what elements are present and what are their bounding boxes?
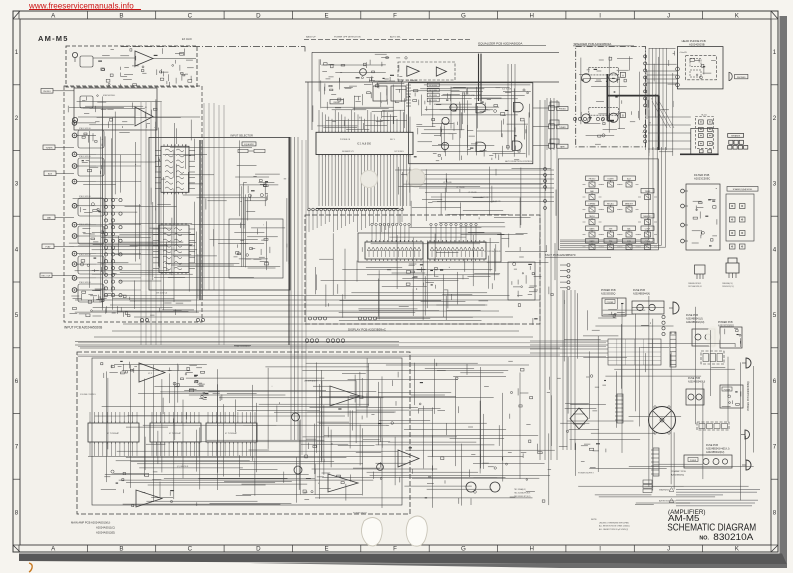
svg-text:TAPE1: TAPE1	[589, 215, 595, 218]
svg-text:REC OUT: REC OUT	[42, 276, 52, 278]
svg-text:6: 6	[15, 378, 19, 385]
svg-text:A2024B5042(K2): A2024B5042(K2)	[706, 451, 725, 454]
svg-text:EQUALIZER: EQUALIZER	[244, 143, 254, 146]
svg-text:COMP: COMP	[645, 229, 651, 231]
svg-text:STACK MODEL: STACK MODEL	[79, 281, 91, 284]
svg-text:MEMORY: MEMORY	[625, 204, 634, 206]
svg-text:ALL RESISTORS IN OHMS 1/4W(J): ALL RESISTORS IN OHMS 1/4W(J)	[599, 525, 630, 528]
svg-text:A2023B505Q: A2023B505Q	[671, 474, 684, 477]
svg-text:E: E	[325, 13, 329, 20]
svg-text:POWER PCB: POWER PCB	[718, 321, 733, 324]
svg-text:BASS: BASS	[590, 228, 596, 231]
svg-text:HEAD PHONE PCB: HEAD PHONE PCB	[682, 39, 706, 43]
svg-text:NR 16OHM: NR 16OHM	[429, 95, 438, 97]
svg-text:A2023S505Q: A2023S505Q	[601, 293, 615, 296]
svg-text:LP 12HNB: LP 12HNB	[456, 187, 465, 189]
svg-text:POWER: POWER	[690, 460, 697, 462]
svg-text:LP 12HNB: LP 12HNB	[443, 182, 452, 184]
svg-text:AUTO FUNCTION CONTROL: AUTO FUNCTION CONTROL	[505, 160, 533, 163]
svg-text:IC3 12A068: IC3 12A068	[406, 79, 418, 82]
svg-text:FUSE PCB: FUSE PCB	[706, 444, 718, 447]
svg-text:DAD: DAD	[47, 217, 52, 220]
svg-text:STACK MODEL: STACK MODEL	[79, 223, 91, 226]
svg-text:PHONO: PHONO	[559, 109, 566, 111]
svg-text:J: J	[667, 13, 670, 20]
svg-text:POWER PCB: POWER PCB	[601, 289, 616, 292]
svg-text:OUT KOBOL: OUT KOBOL	[394, 151, 404, 153]
svg-text:AUX: AUX	[48, 173, 53, 176]
svg-text:FUSE PCB: FUSE PCB	[686, 314, 698, 317]
svg-text:5W 1/2W (J): 5W 1/2W (J)	[156, 293, 167, 295]
svg-text:2SB608H NP/E,F1: 2SB608H NP/E,F1	[688, 283, 701, 285]
svg-text:A20240503B: A20240503B	[689, 42, 705, 46]
svg-text:7: 7	[15, 444, 19, 451]
svg-text:TUNER: TUNER	[559, 127, 566, 129]
svg-text:LP 12HNB: LP 12HNB	[480, 197, 489, 199]
svg-text:PORTA B OB: PORTA B OB	[340, 138, 351, 141]
svg-text:SPEAKER PCB A20240503A: SPEAKER PCB A20240503A	[574, 42, 612, 46]
svg-text:LP 12HNB: LP 12HNB	[468, 192, 477, 194]
svg-text:IC TC9164P: IC TC9164P	[169, 433, 182, 435]
svg-text:7: 7	[773, 444, 777, 451]
svg-text:POWER: POWER	[724, 389, 731, 391]
svg-text:+50mWL: +50mWL	[679, 52, 688, 54]
svg-text:INPUT SELECTOR: INPUT SELECTOR	[231, 134, 254, 138]
svg-text:PHONES: PHONES	[737, 77, 746, 79]
svg-text:F: F	[393, 546, 397, 553]
svg-text:830210A: 830210A	[713, 532, 754, 543]
svg-text:DEFEAT: DEFEAT	[589, 203, 597, 206]
svg-text:TIMER: TIMER	[645, 191, 651, 193]
svg-text:STACK MODEL: STACK MODEL	[79, 253, 91, 256]
svg-text:POWER? PCB: POWER? PCB	[671, 471, 686, 473]
svg-text:STACK MODEL: STACK MODEL	[79, 155, 91, 158]
svg-text:6: 6	[773, 378, 777, 385]
svg-text:WARNING:: WARNING:	[659, 489, 670, 492]
svg-text:4: 4	[15, 246, 19, 253]
svg-text:4: 4	[773, 246, 777, 253]
svg-text:POWER SUPPLY: POWER SUPPLY	[578, 473, 595, 475]
svg-text:A2023C509C: A2023C509C	[694, 177, 710, 181]
svg-text:A2024A5012(E): A2024A5012(E)	[96, 531, 115, 535]
svg-text:SPEAKER: SPEAKER	[731, 135, 741, 138]
svg-text:RESET: RESET	[334, 102, 341, 104]
svg-text:1: 1	[15, 49, 19, 56]
svg-text:TB1 20MA(E,F): TB1 20MA(E,F)	[514, 488, 526, 491]
svg-text:8: 8	[773, 509, 777, 516]
svg-text:5: 5	[15, 312, 19, 319]
svg-text:2: 2	[15, 115, 19, 122]
svg-text:PHONO: PHONO	[43, 91, 51, 93]
svg-text:H: H	[529, 546, 533, 553]
svg-text:MEMORY: MEMORY	[643, 216, 652, 218]
svg-text:AM-M5: AM-M5	[668, 513, 700, 523]
svg-text:C: C	[188, 546, 193, 553]
svg-text:TA-001: TA-001	[701, 114, 707, 117]
svg-text:E: E	[325, 546, 329, 553]
svg-text:B: B	[119, 13, 123, 20]
svg-text:POWER MUTE: POWER MUTE	[353, 513, 367, 515]
svg-text:IC 1 AL8 050: IC 1 AL8 050	[357, 143, 371, 146]
svg-text:TUNER: TUNER	[46, 148, 53, 150]
svg-text:A2024B5044(X): A2024B5044(X)	[633, 293, 650, 296]
svg-text:3: 3	[773, 181, 777, 188]
svg-text:BAL: BAL	[627, 228, 630, 231]
svg-text:TACT PCB A2023B5070: TACT PCB A2023B5070	[545, 253, 576, 257]
svg-text:IC TC9164P: IC TC9164P	[107, 433, 120, 435]
svg-text:C: C	[188, 13, 193, 20]
svg-text:TB2 20206A HF (E,F): TB2 20206A HF (E,F)	[514, 492, 531, 495]
svg-text:D: D	[256, 13, 261, 20]
svg-text:A2024B5043/-4(E,K,I): A2024B5043/-4(E,K,I)	[706, 448, 730, 451]
svg-text:KEY 0: KEY 0	[390, 139, 395, 141]
svg-text:A2024A5011(C): A2024A5011(C)	[96, 526, 115, 530]
svg-text:www.freeservicemanuals.info: www.freeservicemanuals.info	[28, 1, 134, 10]
svg-text:45B MODEL: 45B MODEL	[103, 95, 116, 97]
svg-text:5: 5	[773, 312, 777, 319]
svg-text:FUSE PCB: FUSE PCB	[688, 377, 700, 380]
svg-text:G: G	[461, 13, 466, 20]
svg-text:1: 1	[773, 49, 777, 56]
svg-text:AVERTISSEMENT:: AVERTISSEMENT:	[659, 500, 676, 503]
svg-text:INPUT PCB A2024A5020B: INPUT PCB A2024A5020B	[64, 326, 102, 330]
svg-text:NR 16OHM: NR 16OHM	[429, 85, 438, 87]
svg-text:PLAY: PLAY	[46, 246, 52, 249]
svg-text:POWER PCB A2023C505Q: POWER PCB A2023C505Q	[747, 381, 750, 411]
svg-text:B: B	[119, 546, 123, 553]
svg-text:POWER: POWER	[607, 302, 614, 304]
svg-text:FILTER PCB: FILTER PCB	[694, 173, 710, 177]
svg-text:J: J	[667, 546, 670, 553]
svg-text:EQUALIZER PCB A2024A5020A: EQUALIZER PCB A2024A5020A	[478, 42, 522, 46]
svg-text:I: I	[599, 546, 601, 553]
svg-text:STACK MODEL: STACK MODEL	[79, 195, 91, 198]
svg-text:PHONO: PHONO	[589, 179, 596, 181]
svg-text:TAPE: TAPE	[560, 145, 566, 148]
svg-text:D: D	[256, 546, 261, 553]
svg-text:RECALL: RECALL	[607, 203, 614, 206]
svg-text:I: I	[599, 13, 601, 20]
svg-text:H: H	[529, 13, 533, 20]
svg-text:2SD636-2X(C,F): 2SD636-2X(C,F)	[722, 286, 734, 288]
svg-text:TUNER: TUNER	[607, 179, 614, 181]
svg-text:ALL CAPACITORS IN µF 50WV(J): ALL CAPACITORS IN µF 50WV(J)	[599, 528, 628, 531]
svg-text:MAIN AMP PCB A2024A5010(U): MAIN AMP PCB A2024A5010(U)	[71, 521, 110, 525]
svg-text:NO.: NO.	[699, 535, 709, 541]
svg-text:SEGMENT 0/7L: SEGMENT 0/7L	[342, 151, 354, 153]
svg-text:VOLUME CONTROL: VOLUME CONTROL	[80, 394, 96, 396]
svg-text:FUSE PCB: FUSE PCB	[633, 289, 645, 292]
svg-text:BACK UP: BACK UP	[306, 36, 316, 39]
svg-text:AM-M5: AM-M5	[38, 34, 69, 43]
svg-text:MIC (L): MIC (L)	[462, 93, 468, 95]
svg-text:3: 3	[15, 181, 19, 188]
svg-text:8: 8	[15, 509, 19, 516]
svg-text:AUTO SEL: AUTO SEL	[390, 36, 402, 39]
svg-text:COMP: COMP	[645, 241, 651, 243]
svg-text:IC TC9164P: IC TC9164P	[225, 433, 238, 435]
svg-text:IC5 TC608: IC5 TC608	[502, 89, 511, 91]
svg-text:FL DISPLAY DRIVE: FL DISPLAY DRIVE	[485, 250, 502, 253]
svg-text:NR 16OHM: NR 16OHM	[429, 100, 438, 102]
svg-text:F: F	[393, 13, 397, 20]
svg-text:2: 2	[773, 115, 777, 122]
svg-text:STACK MODEL: STACK MODEL	[79, 127, 91, 130]
svg-text:EX JACK: EX JACK	[182, 38, 192, 41]
svg-text:UNLESS OTHERWISE SPECIFIED: UNLESS OTHERWISE SPECIFIED	[599, 522, 630, 524]
svg-text:G: G	[461, 546, 466, 553]
svg-text:POWER OFF DETECTION: POWER OFF DETECTION	[334, 37, 361, 39]
svg-text:NOTE: NOTE	[591, 519, 597, 521]
svg-text:A2024B5041(J): A2024B5041(J)	[686, 318, 703, 321]
